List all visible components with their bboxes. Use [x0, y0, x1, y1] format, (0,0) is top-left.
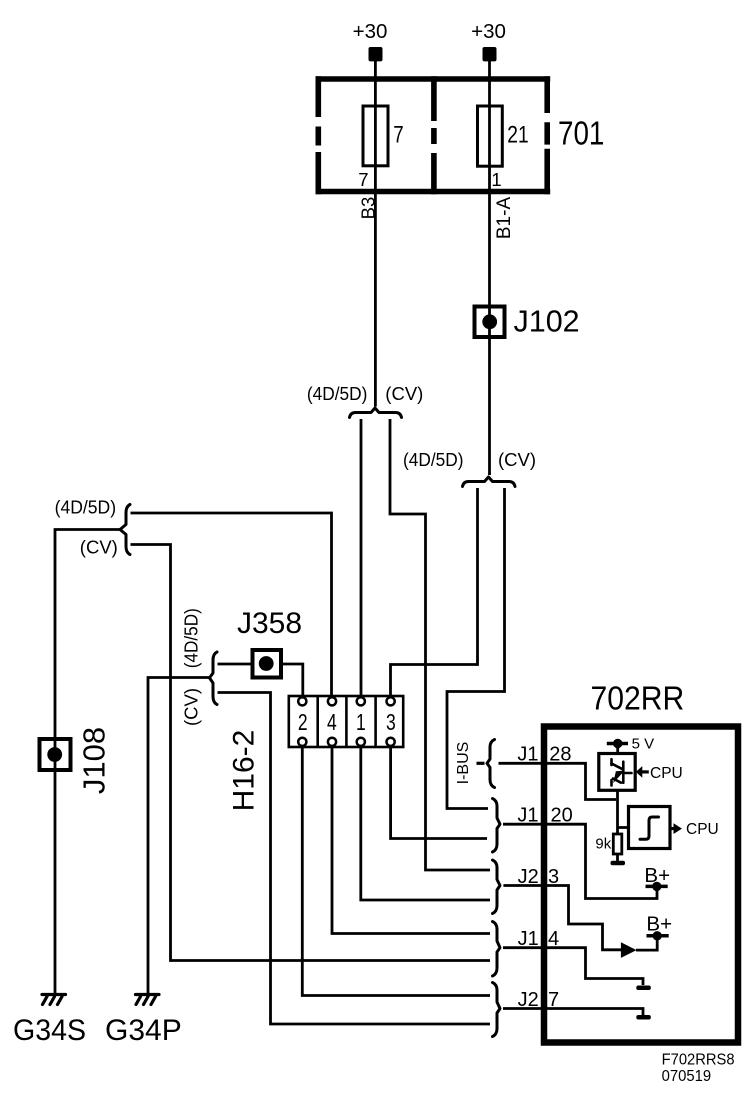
svg-text:(4D/5D): (4D/5D) — [403, 449, 464, 470]
wire B1-A CV branch to 702RR J1 20 upper — [447, 488, 505, 809]
svg-text:B3: B3 — [357, 197, 378, 220]
wire B1-A 4D/5D branch to H16-2 pin 3 — [391, 488, 478, 699]
fuse box 701 bottom edge — [316, 189, 551, 195]
CPU arrow into opto box — [636, 766, 643, 778]
internal ground bar (J2 7) — [636, 1015, 651, 1020]
wire J358 brace 4D/5D arm into J358 — [218, 663, 254, 666]
wire pin J2 3 to amplifier input — [503, 886, 621, 950]
wire amplifier output to B+ lower — [636, 938, 657, 951]
svg-text:CPU: CPU — [650, 765, 683, 782]
ground G34P riser wire — [148, 678, 210, 994]
wire B3 4D/5D branch to H16-2 pin 1 — [360, 419, 363, 699]
pin J2 3 brace — [493, 860, 501, 914]
5V terminal dot — [613, 739, 622, 748]
wire 5V to opto box — [616, 745, 619, 754]
fuse box 701 center divider (dashed) — [431, 76, 437, 194]
amplifier triangle — [621, 942, 637, 958]
svg-text:CPU: CPU — [686, 821, 719, 838]
fuse F21 value label 21 — [507, 121, 528, 149]
opto receiver box U1 — [599, 754, 635, 791]
internal ground bar (J1 4) — [636, 986, 651, 991]
svg-text:2: 2 — [298, 711, 308, 736]
connector H16-2 pin circles — [298, 697, 395, 746]
schmitt trigger box U2 — [629, 807, 671, 849]
svg-text:J102: J102 — [514, 304, 580, 338]
ground G34P symbol — [136, 995, 160, 1005]
wire H16-2 pin 1 bottom to J2 3 lower — [361, 746, 490, 900]
fuse F7 value label 7 — [393, 121, 403, 148]
connector H16-2 cell label 3 — [386, 711, 396, 736]
wire pin J2 7 to internal ground — [503, 1009, 643, 1016]
svg-text:701: 701 — [558, 114, 604, 152]
module 702RR designator — [591, 679, 685, 717]
pin J1 4 brace — [493, 922, 501, 977]
B+ terminal upper bar — [646, 885, 668, 889]
ground G34S symbol — [42, 995, 66, 1005]
svg-text:7: 7 — [393, 121, 403, 148]
pin J1 20 brace — [493, 799, 501, 853]
junction J108 wire through — [54, 739, 57, 993]
node +30 (left) terminal square — [369, 47, 383, 61]
connector H16-2 cell label 4 — [327, 711, 337, 736]
svg-text:(CV): (CV) — [498, 449, 536, 470]
B+ terminal lower dot — [653, 931, 662, 940]
junction J102 dot — [482, 314, 497, 329]
wire left brace 4D/5D arm to H16-2 pin 4 — [131, 513, 332, 699]
wire pin J1 28 into module — [499, 763, 617, 799]
svg-text:4: 4 — [327, 711, 337, 736]
svg-text:F702RRS8: F702RRS8 — [662, 1051, 735, 1068]
B+ terminal lower bar — [647, 934, 669, 938]
fuse box 701 top edge — [316, 76, 551, 82]
B+ terminal upper dot — [652, 882, 661, 891]
svg-text:I-BUS: I-BUS — [455, 742, 472, 785]
svg-text:(4D/5D): (4D/5D) — [55, 497, 117, 518]
svg-text:21: 21 — [507, 121, 528, 149]
wire left brace CV arm to 702RR J1 4 lower — [131, 545, 491, 961]
svg-text:070519: 070519 — [662, 1068, 712, 1085]
variant split brace under fuse 7 — [350, 408, 402, 418]
connector H16-2 box — [289, 696, 403, 747]
svg-text:(CV): (CV) — [385, 383, 423, 404]
CPU arrow out of schmitt box — [670, 827, 674, 830]
fuse F7 body — [363, 106, 388, 166]
svg-text:B1-A: B1-A — [494, 197, 515, 240]
wire H16-2 pin 4 bottom to J1 4 upper — [332, 746, 490, 934]
svg-text:7: 7 — [358, 169, 368, 190]
wire from +30 left into fuse 7 and down to variant split — [374, 60, 377, 407]
svg-text:(CV): (CV) — [180, 688, 201, 726]
svg-text:702RR: 702RR — [591, 679, 685, 717]
module 702RR box — [544, 727, 738, 1043]
opto receiver internal arrow — [615, 772, 623, 781]
svg-text:+30: +30 — [353, 20, 388, 43]
svg-text:J358: J358 — [237, 607, 302, 640]
opto receiver internal symbol — [612, 759, 632, 785]
svg-text:(4D/5D): (4D/5D) — [307, 383, 368, 404]
wire left brace point to J108 riser — [55, 530, 120, 741]
svg-text:+30: +30 — [471, 20, 506, 43]
fuse box 701 left edge (dashed) — [315, 76, 321, 194]
svg-text:G34S: G34S — [13, 1014, 86, 1047]
component 701 designator — [558, 114, 604, 152]
junction J358 box — [253, 650, 282, 678]
internal ground bar (9k) — [611, 861, 626, 866]
wire from +30 right through fuse 21 down to J102 — [488, 60, 491, 307]
wire H16-2 pin 2 bottom to J2 7 upper — [302, 746, 490, 996]
5V terminal bar — [607, 742, 628, 746]
svg-text:(4D/5D): (4D/5D) — [180, 608, 201, 668]
fuse box 701 right edge (dashed) — [544, 76, 550, 194]
node +30 (right) terminal square — [483, 47, 497, 61]
svg-text:9k: 9k — [595, 835, 611, 852]
wire J358 to H16-2 pin 2 — [281, 664, 303, 699]
svg-text:B+: B+ — [644, 864, 670, 887]
wire B3 CV branch to 702RR J2 3 upper — [390, 419, 490, 870]
connector H16-2 cell label 2 — [298, 711, 308, 736]
svg-text:(CV): (CV) — [80, 537, 118, 558]
svg-text:1: 1 — [356, 711, 366, 736]
wire H16-2 pin 3 bottom to J1 20 lower — [391, 746, 487, 839]
svg-text:1: 1 — [491, 169, 501, 190]
junction J358 dot — [259, 656, 274, 671]
connector H16-2 cell dividers — [318, 696, 376, 747]
wire J358 brace CV arm to 702RR J2 7 lower — [218, 693, 491, 1025]
wire pin J1 20 to B+ (upper) — [503, 824, 657, 898]
resistor 9k body — [613, 834, 622, 854]
J358 variant brace — [210, 652, 218, 705]
svg-text:3: 3 — [386, 711, 396, 736]
svg-text:J108: J108 — [77, 727, 112, 794]
junction J102 wire through — [488, 306, 491, 475]
left variant merge brace (ground G34S) — [120, 505, 130, 555]
variant split brace under J102 — [463, 477, 516, 487]
junction J108 box — [40, 739, 71, 770]
connector H16-2 cell label 1 — [356, 711, 366, 736]
schmitt trigger step symbol — [640, 817, 659, 839]
wire riser to schmitt input — [618, 826, 629, 829]
svg-text:H16-2: H16-2 — [228, 730, 261, 812]
svg-text:5 V: 5 V — [632, 736, 655, 753]
junction J108 dot — [47, 747, 62, 762]
fuse F21 body — [478, 106, 503, 166]
I-BUS dash — [477, 762, 485, 765]
svg-text:G34P: G34P — [105, 1014, 182, 1047]
wire opto box bottom to ground through 9k — [616, 790, 619, 861]
pin J1 28 brace — [487, 740, 495, 788]
pin J2 7 brace — [493, 983, 501, 1037]
wire pin J1 4 to internal ground — [503, 948, 643, 985]
svg-text:B+: B+ — [646, 912, 672, 935]
junction J102 box — [475, 307, 505, 338]
